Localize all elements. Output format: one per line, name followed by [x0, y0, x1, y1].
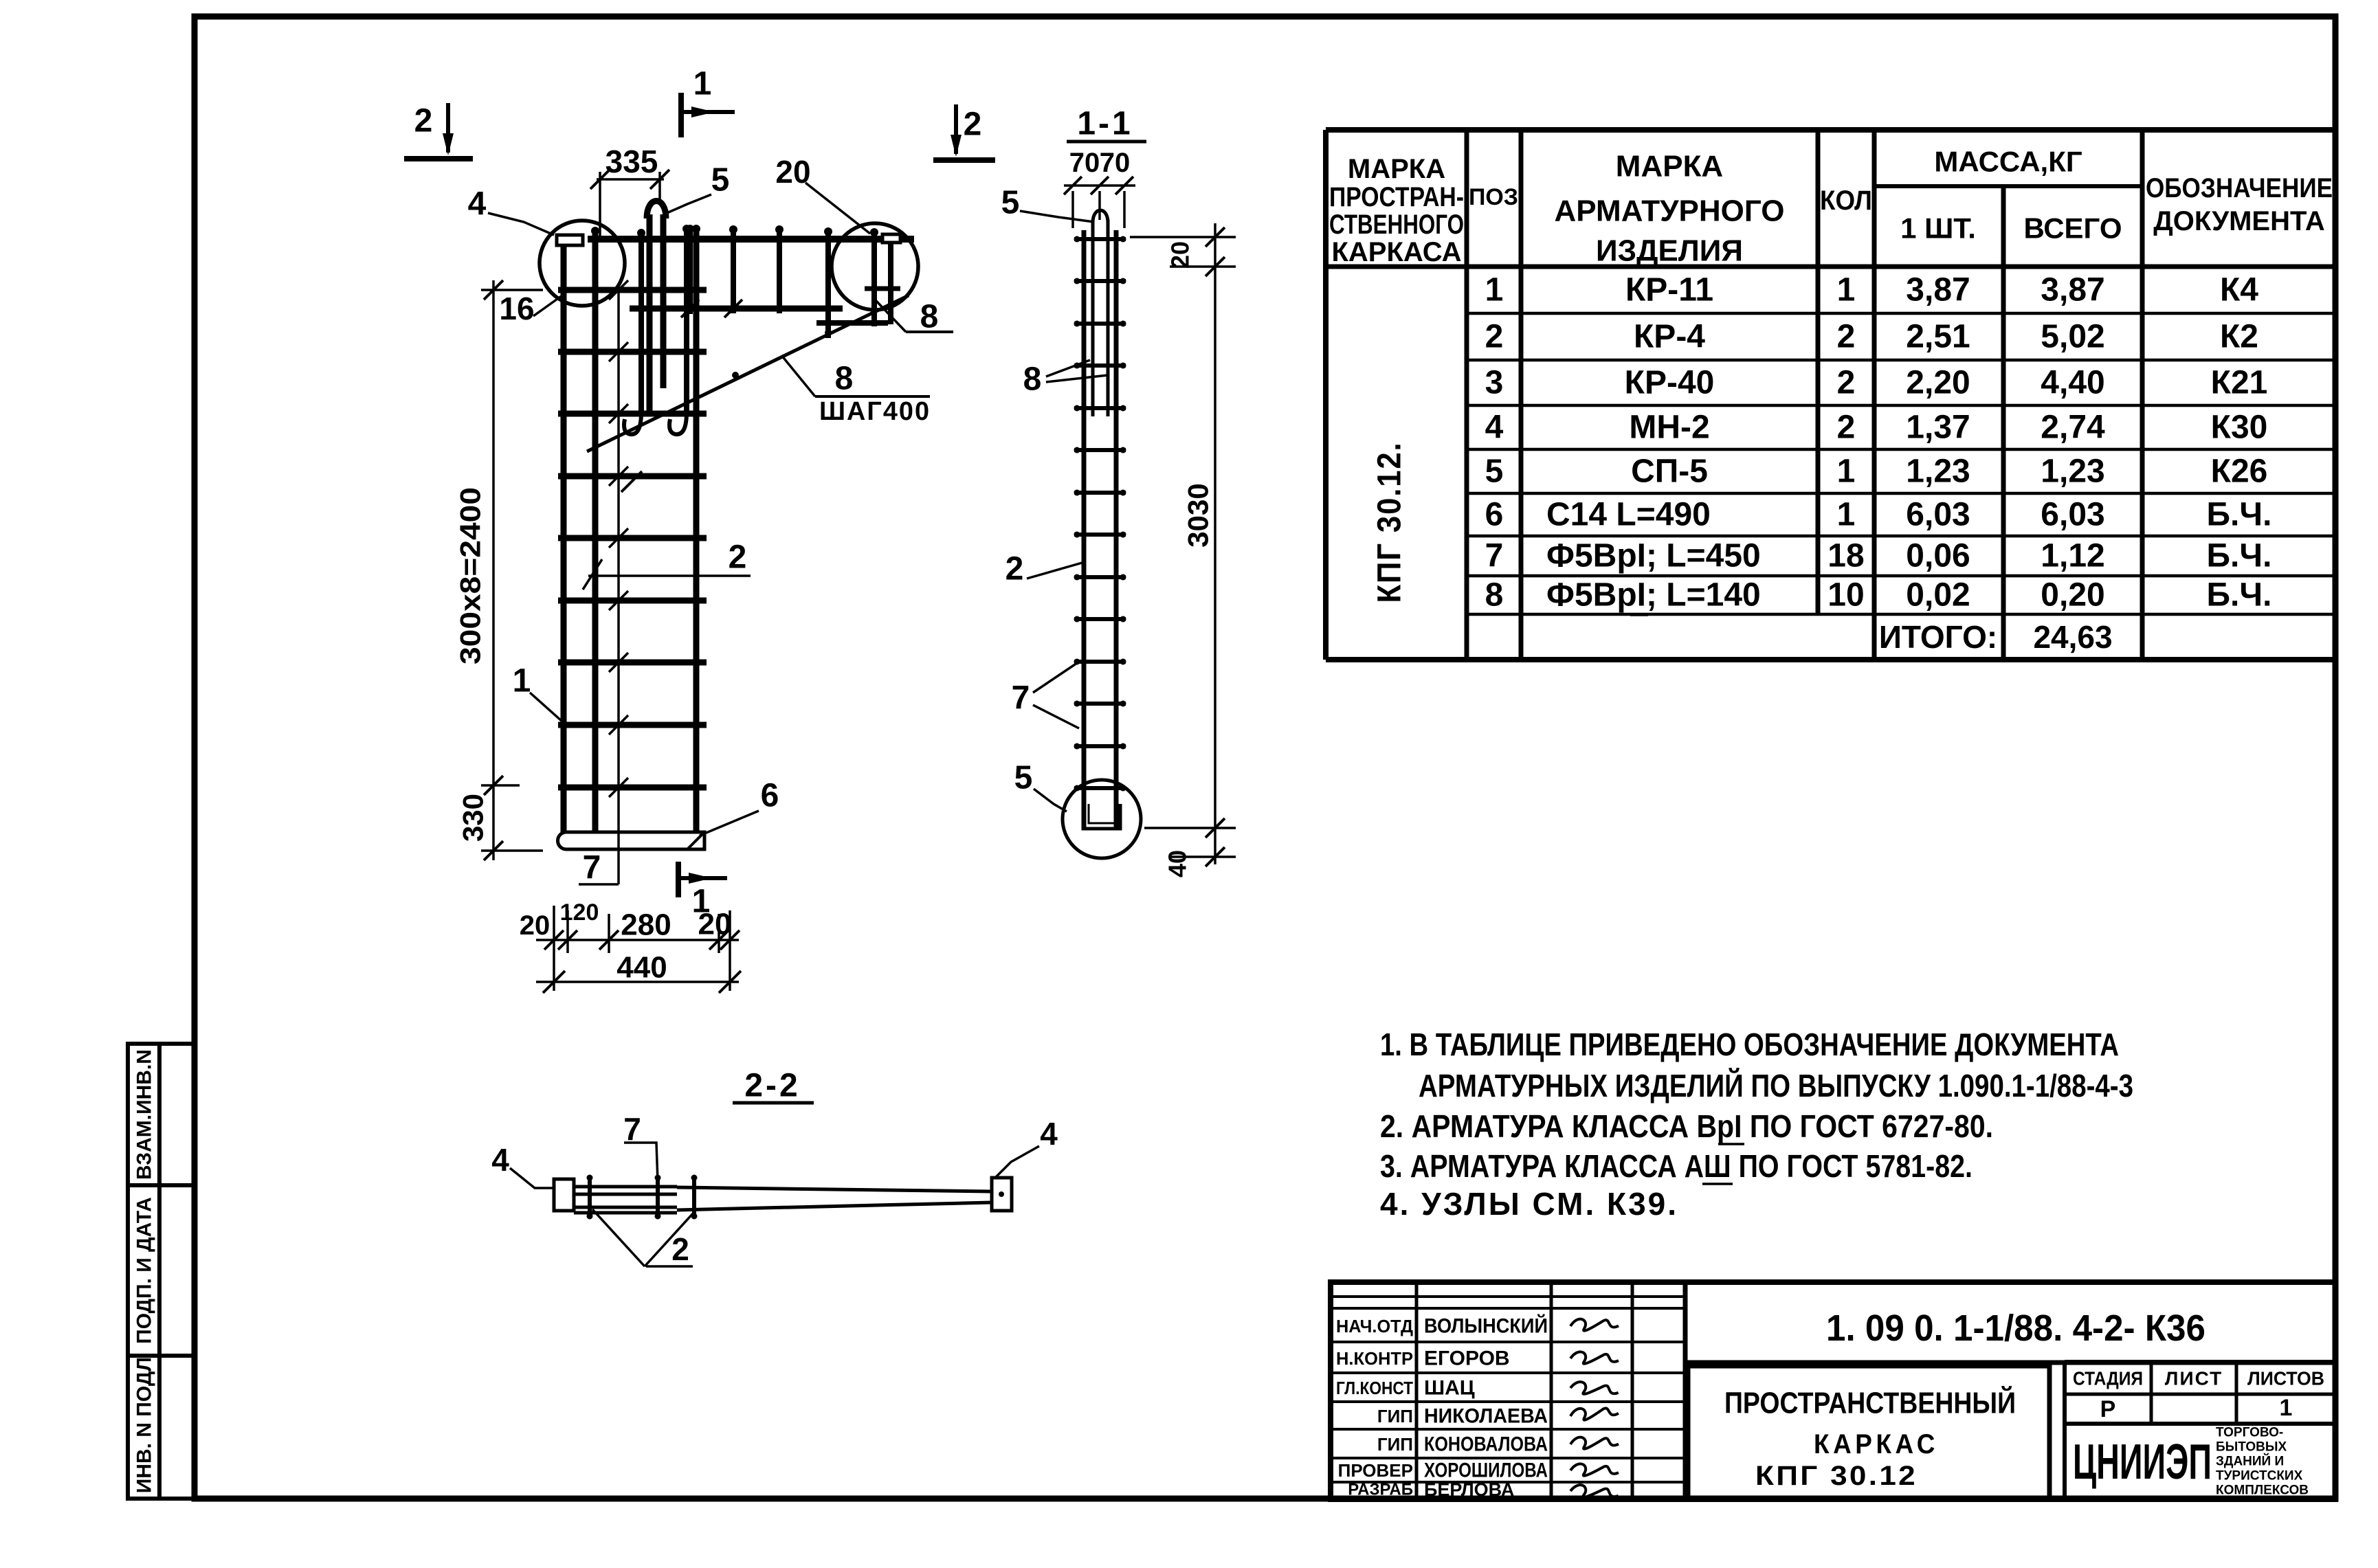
dim tick [1205, 227, 1225, 247]
crossing tick [724, 300, 742, 317]
rod end dot [1120, 532, 1126, 538]
svg-text:ДОКУМЕНТА: ДОКУМЕНТА [2153, 206, 2325, 236]
svg-text:1 ШТ.: 1 ШТ. [1900, 212, 1976, 245]
svg-text:5,02: 5,02 [2041, 319, 2104, 355]
extension line [658, 172, 661, 201]
svg-text:3. АРМАТУРА КЛАССА АШ ПО ГОСТ: 3. АРМАТУРА КЛАССА АШ ПО ГОСТ 5781-82. [1380, 1148, 1973, 1184]
section cross rod 14 [1074, 786, 1126, 790]
label 6 leader [700, 811, 759, 836]
svg-text:К26: К26 [2211, 453, 2268, 490]
leader crossing tick [609, 280, 628, 300]
dim tick [650, 170, 669, 189]
svg-text:16: 16 [499, 291, 534, 326]
section 2 mark bar right [933, 157, 995, 163]
rod end dot [1120, 616, 1126, 623]
section cross rod 9 [1074, 575, 1126, 579]
rod end dot [1120, 785, 1126, 792]
svg-text:4. УЗЛЫ СМ. К39.: 4. УЗЛЫ СМ. К39. [1380, 1186, 1678, 1222]
svg-text:1: 1 [1837, 272, 1856, 309]
svg-text:ПРОСТРАНСТВЕННЫЙ: ПРОСТРАНСТВЕННЫЙ [1724, 1385, 2016, 1420]
leader crossing tick [609, 715, 628, 735]
svg-text:2: 2 [729, 539, 747, 576]
svg-text:2-2: 2-2 [744, 1068, 800, 1104]
hairpin leg left (poz.5 SP-5) [647, 214, 653, 412]
title block [1331, 1282, 2335, 1499]
svg-text:18: 18 [1827, 538, 1864, 574]
svg-text:2: 2 [1837, 319, 1856, 355]
svg-text:МАРКА: МАРКА [1348, 154, 1445, 184]
rod end dot [1074, 701, 1080, 707]
column chord bar right [693, 227, 700, 832]
extension line [481, 289, 543, 291]
label 8 leader to brace [781, 355, 815, 396]
svg-text:330: 330 [457, 794, 489, 842]
section detail circle bottom [1063, 780, 1141, 858]
svg-text:120: 120 [560, 899, 599, 926]
dim tick [544, 930, 564, 950]
2-2 long bar top [677, 1187, 992, 1191]
rod end dot [1120, 701, 1126, 707]
hairpin bottom bend inner [1089, 804, 1115, 823]
label 5 leader [1034, 789, 1067, 811]
dim tick [484, 841, 503, 860]
plate end chamfer [687, 832, 704, 849]
rod end dot [1074, 321, 1080, 327]
svg-text:7: 7 [623, 1111, 641, 1147]
hairpin bottom bend (U channel) [1083, 804, 1120, 829]
label 2 underline [646, 1265, 693, 1268]
svg-text:АРМАТУРНЫХ ИЗДЕЛИЙ ПО ВЫПУСКУ: АРМАТУРНЫХ ИЗДЕЛИЙ ПО ВЫПУСКУ 1.090.1-1/… [1419, 1068, 2133, 1104]
label 8 leader a [1046, 360, 1090, 377]
label 2 tick [583, 559, 602, 590]
brace crossing dot [825, 329, 832, 336]
rod end dot [691, 1175, 698, 1181]
svg-text:2: 2 [1837, 365, 1856, 401]
svg-text:280: 280 [621, 908, 671, 942]
column cross rod 5 (poz.7) [558, 535, 707, 541]
dim tick [543, 971, 565, 993]
svg-text:СТВЕННОГО: СТВЕННОГО [1329, 210, 1464, 240]
bottom plate poz.6 (C14 L=490) [558, 832, 705, 849]
svg-text:440: 440 [616, 951, 667, 985]
svg-text:КАРКАС: КАРКАС [1814, 1429, 1939, 1459]
arm cross rod (poz.8) [777, 227, 782, 313]
section 1 arrow line bottom [678, 876, 727, 880]
column cross rod 6 (poz.7) [558, 598, 707, 604]
dim tick [590, 170, 610, 189]
svg-text:ИТОГО:: ИТОГО: [1879, 619, 1997, 655]
svg-text:1,23: 1,23 [2041, 453, 2104, 490]
svg-text:С14 L=490: С14 L=490 [1546, 497, 1711, 533]
svg-text:10: 10 [1827, 577, 1864, 614]
svg-text:ГИП: ГИП [1377, 1434, 1413, 1455]
2-2 cross rod (poz.7) [588, 1176, 592, 1218]
extension line [481, 784, 520, 787]
svg-text:6: 6 [1485, 497, 1504, 533]
svg-text:ПРОСТРАН-: ПРОСТРАН- [1329, 182, 1464, 212]
label 2 leader b [645, 1212, 694, 1266]
svg-text:КПГ 30.12: КПГ 30.12 [1755, 1461, 1918, 1491]
extension line [608, 914, 610, 953]
rod end dot [691, 1213, 698, 1220]
svg-text:БЫТОВЫХ: БЫТОВЫХ [2216, 1440, 2287, 1455]
svg-text:ПРОВЕР: ПРОВЕР [1338, 1460, 1413, 1481]
svg-text:1,37: 1,37 [1906, 410, 1970, 446]
svg-text:ГЛ.КОНСТ: ГЛ.КОНСТ [1336, 1378, 1413, 1398]
dim tick [1205, 818, 1225, 838]
svg-text:К2: К2 [2220, 319, 2258, 355]
arm end splice bar [816, 320, 888, 326]
rod end dot [870, 228, 878, 236]
svg-text:ВЗАМ.ИНВ.N: ВЗАМ.ИНВ.N [133, 1049, 156, 1180]
svg-text:8: 8 [1023, 361, 1042, 398]
svg-text:1: 1 [2280, 1395, 2293, 1421]
dim tick [1205, 847, 1225, 866]
svg-text:1: 1 [1837, 497, 1856, 533]
svg-text:8: 8 [835, 361, 854, 397]
svg-text:5: 5 [711, 162, 730, 199]
svg-text:Р: Р [2100, 1396, 2116, 1422]
label 7 leader b [1033, 705, 1079, 728]
2-2 bar pair bottom a [574, 1206, 677, 1209]
section cross rod 5 [1074, 406, 1126, 410]
extension line [1130, 236, 1236, 238]
dim line 335 [597, 178, 664, 181]
left margin inventory strip boxes [128, 1044, 195, 1499]
rod hook left [624, 412, 641, 434]
detail circle left [540, 221, 625, 306]
svg-text:20: 20 [1166, 241, 1194, 269]
extension line [1098, 191, 1101, 220]
position 7 leader line lower [617, 830, 620, 884]
svg-text:6,03: 6,03 [2041, 497, 2104, 533]
section 1 mark bar top [678, 93, 684, 137]
rod end dot [1074, 405, 1080, 412]
svg-text:3030: 3030 [1182, 483, 1214, 547]
rod end dot [587, 1213, 593, 1220]
short bar in right detail circle [865, 287, 900, 291]
svg-text:3,87: 3,87 [1906, 272, 1970, 309]
svg-text:НИКОЛАЕВА: НИКОЛАЕВА [1424, 1405, 1548, 1428]
detail circle right [832, 223, 918, 310]
dim tick [709, 930, 729, 950]
svg-text:БЕРЛОВА: БЕРЛОВА [1424, 1479, 1514, 1500]
svg-text:1: 1 [692, 884, 711, 920]
column cross rod 2 (poz.7) [558, 349, 707, 355]
dim tick [558, 930, 577, 950]
section cross rod 10 [1074, 617, 1126, 621]
svg-text:4: 4 [491, 1142, 509, 1178]
svg-text:ХОРОШИЛОВА: ХОРОШИЛОВА [1424, 1459, 1548, 1482]
svg-text:Б.Ч.: Б.Ч. [2207, 577, 2272, 614]
label 2 leader a [592, 1209, 645, 1266]
anchor plate poz.4 top right (MN-2) [882, 234, 900, 243]
svg-text:ЛИСТОВ: ЛИСТОВ [2247, 1368, 2324, 1389]
svg-text:Н.КОНТР: Н.КОНТР [1336, 1348, 1413, 1369]
hooked rod left [638, 231, 644, 412]
extension line [599, 172, 601, 240]
rod end dot [587, 1175, 593, 1181]
rod end dot [1074, 616, 1080, 623]
rod end dot [1074, 278, 1080, 284]
rod end dot [1120, 447, 1126, 453]
label 8 leader [876, 300, 906, 332]
svg-text:0,20: 0,20 [2041, 577, 2104, 614]
hairpin top loop [647, 201, 666, 219]
svg-text:70: 70 [1100, 148, 1131, 178]
hairpin leg right (poz.5) [660, 214, 667, 388]
svg-text:Б.Ч.: Б.Ч. [2207, 497, 2272, 533]
rod end dot [1074, 532, 1080, 538]
underline Roman I row 8 [1630, 614, 1648, 616]
svg-text:КОМПЛЕКСОВ: КОМПЛЕКСОВ [2216, 1483, 2309, 1498]
section cross rod 13 [1074, 744, 1126, 748]
svg-text:0,02: 0,02 [1906, 577, 1970, 614]
section 1 arrow line top [681, 110, 735, 114]
label 8 underline [906, 331, 953, 333]
svg-text:МАРКА: МАРКА [1616, 150, 1723, 183]
section cross rod 12 [1074, 702, 1126, 706]
svg-text:2: 2 [1837, 410, 1856, 446]
svg-text:ЛИСТ: ЛИСТ [2165, 1368, 2223, 1389]
svg-text:1: 1 [1837, 453, 1856, 490]
svg-text:24,63: 24,63 [2033, 619, 2112, 655]
svg-text:1,23: 1,23 [1906, 453, 1970, 490]
label 4 leader [995, 1146, 1039, 1178]
column cross rod 1 (poz.7) [558, 287, 707, 293]
label 7 leader a [1033, 662, 1079, 693]
label 8 underline [815, 395, 930, 398]
svg-text:АРМАТУРНОГО: АРМАТУРНОГО [1555, 194, 1785, 228]
svg-text:2,51: 2,51 [1906, 319, 1970, 355]
rod end dot [1120, 574, 1126, 581]
label 20 leader [805, 183, 870, 234]
extension line [729, 910, 731, 991]
svg-text:ЕГОРОВ: ЕГОРОВ [1424, 1347, 1510, 1370]
rod end dot [686, 225, 694, 233]
section 1-1 title underline [1067, 140, 1146, 144]
rod end dot [1120, 490, 1126, 496]
2-2 bar pair top a [574, 1185, 677, 1189]
svg-text:Ф5ВрI; L=140: Ф5ВрI; L=140 [1546, 577, 1761, 614]
svg-text:3,87: 3,87 [2041, 272, 2104, 309]
label 2 leader line [588, 574, 751, 577]
section hairpin leg [1107, 220, 1110, 416]
svg-text:СТАДИЯ: СТАДИЯ [2073, 1368, 2143, 1389]
rod end dot [1074, 490, 1080, 496]
dim tick [1064, 177, 1082, 194]
leader crossing tick [609, 653, 628, 672]
rod end dot [1074, 236, 1080, 243]
arm bottom chord bar [630, 306, 843, 312]
rod end dot [1120, 363, 1126, 369]
2-2 cross rod (poz.7) [656, 1176, 660, 1218]
rod end dot [1074, 363, 1080, 369]
svg-text:КПГ 30.12.: КПГ 30.12. [1372, 442, 1408, 603]
2-2 anchor plate right (poz.4) [992, 1178, 1012, 1211]
section 2 mark bar [404, 156, 473, 161]
svg-text:2: 2 [1485, 319, 1504, 355]
svg-text:40: 40 [1164, 850, 1192, 877]
column cross rod 4 (poz.7) [558, 473, 707, 480]
svg-text:СП-5: СП-5 [1631, 453, 1708, 490]
rod end dot [729, 225, 737, 234]
svg-text:ОБОЗНАЧЕНИЕ: ОБОЗНАЧЕНИЕ [2146, 173, 2333, 203]
svg-text:1. В ТАБЛИЦЕ ПРИВЕДЕНО ОБОЗНА: 1. В ТАБЛИЦЕ ПРИВЕДЕНО ОБОЗНАЧЕНИЕ ДОКУМ… [1380, 1027, 2119, 1062]
column cross rod 8 (poz.7) [558, 722, 707, 728]
dim line 300x8=2400 / 330 [492, 280, 495, 860]
svg-text:Б.Ч.: Б.Ч. [2207, 538, 2272, 574]
rod end dot [1120, 659, 1126, 665]
arm cross rod (poz.8) [731, 227, 736, 313]
extension line [1144, 827, 1236, 829]
svg-text:ВОЛЫНСКИЙ: ВОЛЫНСКИЙ [1424, 1314, 1548, 1338]
column cross rod 9 (poz.7) [558, 785, 707, 791]
svg-text:20: 20 [775, 154, 810, 190]
section 2 arrow line right [954, 104, 958, 154]
2-2 cross rod (poz.7) [692, 1176, 696, 1218]
leader crossing tick [609, 467, 628, 486]
svg-text:МН-2: МН-2 [1629, 410, 1709, 446]
svg-text:2: 2 [671, 1231, 689, 1267]
svg-text:4: 4 [468, 186, 487, 223]
svg-text:4: 4 [1040, 1116, 1058, 1152]
svg-text:6,03: 6,03 [1906, 497, 1970, 533]
section cross rod 11 [1074, 660, 1126, 664]
rod end dot [1074, 743, 1080, 750]
svg-text:ТУРИСТСКИХ: ТУРИСТСКИХ [2216, 1469, 2303, 1483]
bar end dot [591, 227, 599, 235]
svg-text:70: 70 [1069, 148, 1100, 178]
rod end dot [682, 225, 691, 233]
leader crossing tick [609, 778, 628, 797]
svg-text:ТОРГОВО-: ТОРГОВО- [2216, 1426, 2283, 1440]
column chord bar left (poz.1 KR-11) [561, 245, 567, 832]
label 5 leader [665, 194, 711, 214]
svg-text:2: 2 [414, 103, 433, 139]
svg-text:6: 6 [761, 778, 779, 814]
dim tick [484, 280, 503, 300]
svg-text:К21: К21 [2211, 365, 2268, 401]
dim tick [1091, 177, 1109, 194]
svg-text:Ф5ВрI; L=450: Ф5ВрI; L=450 [1546, 538, 1761, 574]
svg-text:7: 7 [583, 850, 601, 886]
section cross rod 1 [1074, 237, 1126, 241]
section 2-2 title underline [733, 1101, 814, 1105]
2-2 bar pair bottom b [574, 1211, 677, 1215]
section cross rod 8 [1074, 533, 1126, 537]
svg-text:7: 7 [1012, 680, 1030, 717]
svg-text:2,20: 2,20 [1906, 365, 1970, 401]
dim tick [1115, 177, 1133, 194]
svg-text:1. 09 0. 1-1/88. 4-2- К36: 1. 09 0. 1-1/88. 4-2- К36 [1826, 1308, 2205, 1349]
svg-text:1: 1 [1485, 272, 1504, 309]
svg-text:4,40: 4,40 [2041, 365, 2104, 401]
section cross rod 6 [1074, 448, 1126, 452]
svg-text:РАЗРАБ: РАЗРАБ [1348, 1481, 1413, 1499]
rod end dot [1074, 574, 1080, 581]
section hairpin loop [1093, 210, 1108, 223]
crossing tick [681, 300, 699, 317]
corner rod [687, 227, 693, 314]
plate dot [999, 1191, 1004, 1197]
svg-text:5: 5 [1001, 185, 1020, 221]
dim tick [720, 930, 740, 950]
section cross rod 3 [1074, 322, 1126, 326]
svg-text:ВСЕГО: ВСЕГО [2023, 212, 2122, 245]
dim tick [599, 930, 619, 950]
dim tick [1205, 257, 1225, 276]
extension line [718, 914, 720, 953]
2-2 long bar bottom [677, 1202, 992, 1210]
svg-text:7: 7 [1485, 538, 1504, 574]
svg-text:20: 20 [520, 910, 551, 941]
leader crossing tick [609, 404, 628, 423]
rod end dot [1074, 447, 1080, 453]
svg-text:КОНОВАЛОВА: КОНОВАЛОВА [1424, 1433, 1548, 1456]
svg-text:ШАГ400: ШАГ400 [819, 397, 931, 426]
section 1 mark bar bottom [676, 862, 681, 897]
svg-text:КР-40: КР-40 [1625, 365, 1715, 401]
label 16 leader [533, 295, 562, 316]
svg-text:К4: К4 [2220, 272, 2258, 309]
label 1 leader [530, 693, 562, 721]
svg-text:КАРКАСА: КАРКАСА [1331, 237, 1461, 267]
rod end dot [1120, 321, 1126, 327]
signatures [1570, 1318, 1619, 1332]
svg-text:2,74: 2,74 [2041, 410, 2105, 446]
svg-text:ШАЦ: ШАЦ [1424, 1377, 1475, 1400]
svg-text:335: 335 [605, 144, 658, 179]
svg-text:ПОДП. И ДАТА: ПОДП. И ДАТА [133, 1197, 156, 1344]
bar end dot [692, 225, 700, 233]
brace crossing dot [732, 372, 739, 379]
svg-text:ЗДАНИЙ И: ЗДАНИЙ И [2216, 1454, 2284, 1469]
svg-text:ПОЗ: ПОЗ [1469, 184, 1518, 210]
rod end dot [824, 227, 832, 236]
label 8 leader b [1046, 375, 1108, 382]
extension line [1123, 191, 1126, 228]
anchor plate poz.4 top left (MN-2) [557, 235, 583, 245]
svg-text:1,12: 1,12 [2041, 538, 2104, 574]
svg-text:1: 1 [693, 66, 712, 102]
section cross rod 7 [1074, 491, 1126, 495]
svg-text:0,06: 0,06 [1906, 538, 1970, 574]
dim tick [484, 776, 503, 795]
svg-text:ЦНИИЭП: ЦНИИЭП [2073, 1435, 2212, 1490]
arm end rod pair left [871, 230, 877, 326]
rod end dot [655, 1213, 661, 1220]
section bar left (poz.2) [1082, 230, 1087, 830]
section cross rod 2 [1074, 279, 1126, 283]
label 4 leader [488, 213, 554, 235]
arm cross rod (poz.8) [825, 229, 831, 338]
svg-text:ИЗДЕЛИЯ: ИЗДЕЛИЯ [1596, 234, 1743, 268]
rod end dot [655, 1175, 661, 1181]
underline Roman III in note 3 [1702, 1183, 1733, 1185]
rod hook right [669, 412, 687, 434]
rod end dot [1120, 405, 1126, 412]
section cross rod 4 [1074, 363, 1126, 368]
svg-text:1: 1 [513, 663, 531, 699]
svg-text:8: 8 [920, 299, 939, 335]
svg-text:КОЛ: КОЛ [1820, 186, 1872, 216]
column chord bar middle [592, 231, 599, 832]
leader crossing tick [609, 528, 628, 548]
label 4 leader [510, 1168, 554, 1188]
svg-text:МАССА,КГ: МАССА,КГ [1934, 146, 2082, 178]
section hairpin leg (poz.5) [1091, 220, 1095, 416]
